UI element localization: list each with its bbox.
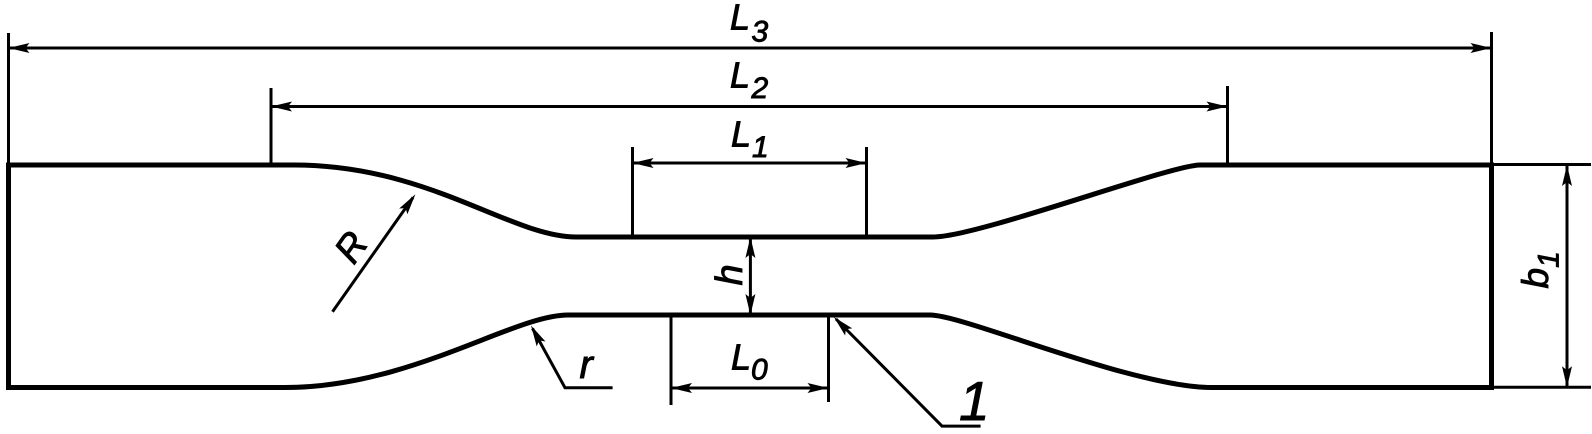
dimension L2 extension line left [270,88,273,166]
svg-text:R: R [327,224,377,271]
leader R arrow [399,191,419,214]
dimension L2 arrow left [271,102,292,112]
dimension L3 extension line right [1490,32,1493,165]
leader r line [533,329,613,388]
svg-text:L: L [731,114,751,155]
dimension L0 extension line right [827,316,830,402]
svg-text:L: L [730,0,750,38]
leader r arrow [527,323,546,346]
dimension L3 extension line left [7,33,10,165]
dimension h arrow top [745,237,755,258]
dimension L3 arrow right [1471,43,1492,53]
dimension L2 arrow right [1207,102,1228,112]
dimension L0 line [672,387,827,390]
dimension L0 extension line left [670,316,673,405]
dimension L1 extension line left [631,147,634,239]
dimension b1 arrow top [1562,165,1572,186]
dimension L3 line [10,47,1490,50]
dimension L2 line [272,105,1226,108]
dimension b1 extension line top [1494,163,1591,166]
specimen outline [9,165,1492,388]
leader R line [333,198,414,312]
dimension L1 arrow right [846,158,867,168]
dimension L0 arrow left [671,383,692,393]
dimension L1 extension line right [865,147,868,239]
dimension L2 extension line right [1226,86,1229,166]
svg-text:L: L [730,55,750,96]
dimension b1 arrow bottom [1562,366,1572,387]
dimension L1 line [634,162,865,165]
svg-text:1: 1 [959,370,990,432]
svg-text:0: 0 [751,353,768,386]
svg-text:r: r [580,343,595,387]
leader 1 arrow [830,313,852,335]
dimension L0 arrow right [808,383,829,393]
svg-text:L: L [731,337,751,378]
leader 1 line [836,319,981,426]
dimension b1 extension line bottom [1494,386,1591,389]
svg-text:3: 3 [752,15,769,48]
dimension L1 arrow left [633,158,654,168]
dimension h line [749,239,752,313]
dimension b1 line [1566,166,1569,386]
svg-text:h: h [709,264,751,285]
dimension h arrow bottom [745,294,755,315]
dimension L3 arrow left [9,43,30,53]
svg-text:1: 1 [752,131,769,164]
svg-text:b1: b1 [1515,251,1566,288]
svg-text:2: 2 [751,72,769,105]
